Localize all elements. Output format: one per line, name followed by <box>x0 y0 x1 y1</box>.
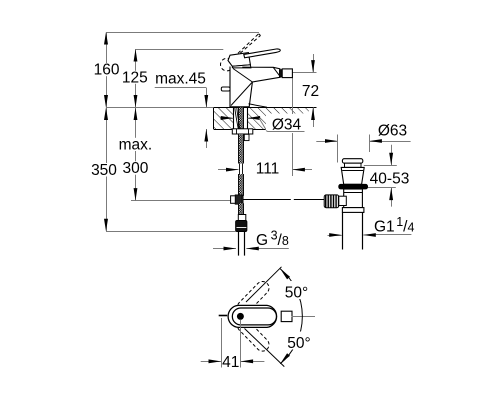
arc lower arrowhead <box>280 353 290 364</box>
svg-text:125: 125 <box>122 69 148 86</box>
waste tailpiece left wall <box>342 212 344 249</box>
40-53 upper extension line <box>364 165 397 167</box>
svg-text:Ø34: Ø34 <box>272 116 302 133</box>
label max. <box>118 138 155 151</box>
deck top surface line <box>214 107 317 109</box>
faucet body-spout lower crease <box>231 82 252 106</box>
waste plug cap <box>342 159 362 164</box>
dimension 72 lower arrow line <box>313 108 315 128</box>
dim 125 top arrowhead <box>134 49 138 62</box>
Ø34 leader bend <box>259 118 267 132</box>
label 50deg upper <box>283 281 312 299</box>
plan view: upper 50deg radial line <box>246 267 282 302</box>
dim 41 right extension line <box>240 320 242 368</box>
extension line, bottom hose level (300 ref) <box>131 200 231 202</box>
plan view: outer body outline (stadium) <box>228 305 277 327</box>
dim 40-53 lower arrow line <box>391 188 393 207</box>
extension line, top of raised lever (160 ref) <box>106 32 259 34</box>
rod knob connector <box>339 196 347 205</box>
label Ø34 <box>266 114 309 131</box>
dim G1 1/4 left arrow <box>328 235 342 237</box>
plan view: dashed lever rotated +50deg <box>237 281 269 313</box>
dimension max.45 upper arrow line <box>206 88 208 108</box>
dim Ø34 right arrow <box>248 118 259 120</box>
dim 125 bottom arrowhead <box>134 95 138 108</box>
dim Ø63 right arrow <box>369 141 410 143</box>
plan view: left stub pin <box>219 315 228 317</box>
mounting deck slab (hatched), left part <box>214 108 234 130</box>
deck hole right wall <box>247 108 249 130</box>
dimension max.300 line <box>135 108 137 201</box>
svg-text:160: 160 <box>94 62 120 79</box>
pull-rod tee dark center <box>235 195 242 204</box>
waste flange rim line <box>341 167 364 169</box>
faucet dashed raised-lever end circle <box>221 58 234 71</box>
waste flange body <box>341 167 364 184</box>
label 160 <box>93 63 121 76</box>
dim 350 bottom arrowhead <box>104 219 108 232</box>
svg-text:40-53: 40-53 <box>370 170 410 187</box>
dim 160 bottom arrowhead <box>104 95 108 108</box>
dim G1 1/4 right arrow + label underline <box>363 234 372 236</box>
label 300 <box>122 161 150 174</box>
plan view: inner lever outline <box>232 308 276 325</box>
max.45 arrowhead at deck top <box>204 95 208 108</box>
svg-text:72: 72 <box>302 83 319 100</box>
plan view: aerator square <box>281 311 292 321</box>
faucet lever blade <box>244 49 280 58</box>
40-53 lower extension line <box>361 187 396 189</box>
waste lower nut ring <box>342 208 364 213</box>
svg-text:50°: 50° <box>285 285 308 302</box>
label 350 <box>91 163 119 177</box>
extension line below aerator (111 ref), lower part <box>292 133 294 176</box>
dim 111 left arrow <box>218 169 239 171</box>
svg-text:350: 350 <box>91 162 117 179</box>
faucet body foot flare <box>249 104 268 108</box>
plan view: lower 50deg radial line <box>245 329 285 367</box>
svg-text:50°: 50° <box>287 335 310 352</box>
dim 350 top arrowhead <box>104 108 108 121</box>
Ø34 label underline <box>267 131 304 133</box>
svg-text:max.: max. <box>119 137 153 154</box>
waste plug neck <box>345 163 362 167</box>
dim 160 top arrowhead <box>104 32 108 45</box>
mounting deck slab (hatched), right part <box>248 108 309 130</box>
dim 41 right arrow <box>241 361 265 363</box>
pop-up actuating rod, right segment <box>294 199 325 201</box>
svg-text:300: 300 <box>122 160 148 177</box>
dimension 160 line <box>106 32 108 108</box>
svg-text:41: 41 <box>222 354 239 371</box>
svg-text:max.45: max.45 <box>155 71 206 88</box>
faucet dashed raised-lever lower line <box>240 36 260 54</box>
extension line below aerator (111 ref), upper part <box>292 78 294 114</box>
deck top ref line left of slab <box>106 107 214 109</box>
faucet body-spout upper crease <box>233 69 252 83</box>
waste O-ring seal (black) <box>339 184 368 189</box>
dim 72 bottom arrowhead (points up to deck) <box>311 108 315 121</box>
dim 41 left extension line <box>221 318 223 368</box>
dimension 350 line <box>106 108 108 232</box>
deck slab left edge <box>213 108 215 130</box>
hose curve in deck hole <box>235 108 239 130</box>
Ø63 right extension line <box>369 135 371 153</box>
extension line, top of lever at rest (125 ref) <box>136 49 224 51</box>
label 50deg lower <box>285 332 315 350</box>
dim G3/8 left arrow <box>213 248 236 250</box>
dimension 72 upper arrow line <box>313 54 315 73</box>
faucet spout cone face <box>273 67 280 77</box>
dim 300 top arrowhead <box>134 108 138 121</box>
hose thin middle section <box>239 164 241 175</box>
braided hose segment C <box>238 203 244 214</box>
faucet shank braid in deck hole <box>238 108 244 130</box>
faucet cartridge collar <box>232 65 251 68</box>
waste lower body <box>344 189 363 208</box>
pop-up actuating rod, left segment <box>243 199 291 201</box>
faucet dashed raised-lever tip <box>259 34 261 36</box>
dim Ø34 left arrow <box>220 118 233 120</box>
pull-rod tee block <box>231 196 243 204</box>
mounting nut under deck <box>232 129 253 134</box>
faucet dashed raised-lever upper line <box>234 34 259 58</box>
braided hose segment A <box>238 134 244 164</box>
deck hole left wall <box>233 108 235 130</box>
faucet aerator block <box>282 69 292 78</box>
plan view: dashed lever rotated -50deg <box>237 319 269 351</box>
plan view: pivot dot (black) <box>237 313 244 320</box>
svg-text:111: 111 <box>256 161 280 178</box>
Ø63 left extension line <box>337 135 339 163</box>
dim 40-53 upper arrow line <box>391 145 393 166</box>
deck bottom line right part <box>248 129 266 131</box>
plan view: center line to arc <box>292 316 316 318</box>
waste flange inner line <box>342 170 363 172</box>
max.45 leader underline <box>155 87 207 89</box>
extension line, G3/8 nut bottom (350 ref) <box>106 231 236 233</box>
waste tailpiece right wall <box>362 212 364 249</box>
braided hose segment B <box>238 174 244 196</box>
rod knob (knurled) <box>324 195 339 208</box>
svg-text:Ø63: Ø63 <box>378 122 407 139</box>
dim 111 right arrow <box>292 169 312 171</box>
dim 72 top arrowhead (points down to spout line) <box>311 60 315 73</box>
dim 300 bottom arrowhead <box>134 188 138 201</box>
arc upper arrowhead <box>280 269 290 280</box>
clamp tab <box>244 134 249 140</box>
dim 41 left arrow <box>201 361 221 363</box>
dim Ø63 left arrow <box>316 141 337 143</box>
max.45 arrowhead at deck bottom <box>204 129 208 142</box>
faucet pop-up rod knob <box>221 87 230 91</box>
supply tube below nut <box>238 232 240 256</box>
faucet lever grip <box>228 53 250 67</box>
dim G3/8 right arrow + label underline <box>246 248 288 250</box>
faucet spout top edge <box>242 67 280 69</box>
faucet body outline <box>230 67 281 107</box>
plan view: swing arc +-50deg <box>280 269 302 364</box>
waste body mid line <box>344 192 363 194</box>
G3/8 fitting collar <box>238 215 246 221</box>
extension line, spout outlet height (72 ref) <box>293 72 317 74</box>
deck bottom line left part <box>214 129 234 131</box>
label 41 <box>223 354 240 368</box>
label 125 <box>121 71 149 84</box>
G3/8 hex nut (dark) <box>236 221 247 232</box>
dimension max.45 lower arrow line <box>206 129 208 148</box>
faucet aerator dark joint <box>279 70 282 77</box>
dimension 125 line <box>135 49 137 108</box>
